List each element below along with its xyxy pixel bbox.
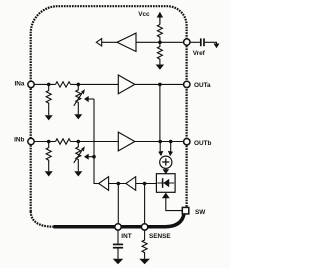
wire Vref node to buffer [136, 41, 183, 43]
capacitor C-INT [113, 244, 123, 247]
ground arrow (SENSE) [139, 259, 150, 264]
op-amp U1 Vref buffer (points left) [117, 33, 136, 51]
pin INT [115, 224, 121, 230]
wire INb input [34, 141, 55, 143]
svg-text:INT: INT [121, 233, 131, 240]
variable resistor (channel a attenuator) [76, 84, 81, 114]
wire amp A output to OUTa [135, 83, 184, 85]
wire SENSE column [144, 184, 146, 224]
svg-text:Vcc: Vcc [138, 11, 150, 18]
open arrowhead pointing left [96, 39, 101, 46]
resistor shunt INb [46, 142, 51, 172]
variable resistor arrow b [74, 146, 85, 163]
node control branch junction [92, 155, 96, 159]
buffer triangle 1 (points left) [99, 177, 109, 191]
svg-text:Vref: Vref [193, 50, 206, 57]
svg-text:SENSE: SENSE [149, 233, 171, 240]
wire INT column [117, 184, 119, 224]
ground arrow (channel a attenuator) [74, 114, 82, 119]
IC package outline (thick bottom border / ground bus) [54, 214, 185, 227]
diode D1 inside box [157, 178, 174, 188]
wire INa input [34, 83, 55, 85]
gain control arrow b [84, 154, 94, 160]
node OUTb left junction [158, 140, 162, 144]
resistor (Vcc to Vref node) [157, 25, 162, 43]
wire detector box to control chain [136, 183, 157, 185]
pin INb [28, 138, 34, 144]
wire capacitor to ground [117, 249, 119, 259]
node Vref divider junction [158, 41, 162, 45]
wire between buffers [109, 183, 126, 185]
wire amp B output to OUTb [135, 141, 184, 143]
wire INT to capacitor [117, 230, 119, 243]
variable resistor arrow a [74, 89, 85, 106]
arrow from SW into detector box [162, 193, 182, 211]
pin OUTb [184, 139, 190, 145]
wire control feedback (up to attenuators) [94, 99, 99, 184]
node OUTa junction [158, 83, 162, 87]
node SENSE branch junction [143, 182, 147, 186]
svg-text:OUTb: OUTb [194, 140, 211, 147]
svg-text:INb: INb [14, 137, 24, 144]
arrow summer to detector box [163, 168, 170, 174]
gain control arrow a [84, 96, 94, 102]
arrow into summer right [168, 151, 173, 156]
resistor shunt INa [46, 84, 51, 115]
resistor (Vref node to ground) [157, 42, 162, 64]
variable resistor (channel b attenuator) [76, 142, 81, 172]
wire resistor to amp B input [71, 141, 119, 143]
wire left summing input [159, 142, 161, 153]
capacitor C1 (Vref bypass) [201, 38, 204, 46]
ground arrow (INT) [113, 259, 124, 264]
node INb attenuator junction [77, 140, 81, 144]
detector box [156, 174, 175, 193]
IC package outline (dotted top/left/right border) [31, 6, 187, 211]
node INT branch junction [117, 182, 121, 186]
pin SW (square) [182, 207, 189, 214]
node INa attenuator junction [77, 83, 81, 87]
IC package outline (dotted bottom-left corner) [31, 212, 54, 227]
wire right summing input [170, 142, 172, 153]
wire resistor to amp A input [71, 83, 119, 85]
pin OUTa [184, 81, 190, 87]
wire Vref buffer output (to internal circuits) [98, 41, 117, 43]
svg-text:OUTa: OUTa [194, 82, 211, 89]
op-amp A (channel a) [118, 75, 135, 94]
node INb shunt junction [47, 140, 51, 144]
wire Vref pin to capacitor [190, 41, 200, 43]
ground arrow (INb shunt) [45, 171, 53, 176]
buffer triangle 2 (points left) [126, 177, 136, 191]
svg-text:SW: SW [195, 209, 206, 216]
summing node circle [160, 156, 172, 168]
op-amp B (channel b) [118, 132, 135, 151]
node INa shunt junction [47, 83, 51, 87]
arrow into summer left [158, 151, 163, 156]
resistor R-INb series [56, 139, 71, 144]
svg-text:INa: INa [14, 80, 24, 87]
node OUTb right junction [169, 140, 173, 144]
ground arrow (INa shunt) [45, 115, 53, 120]
wire OUTa to OUTb column [159, 84, 161, 141]
plus sign [162, 158, 169, 165]
wire capacitor to ground arrow [205, 42, 217, 44]
resistor R-SENSE [142, 230, 147, 258]
pin SENSE [141, 224, 147, 230]
ground arrow (channel b attenuator) [74, 171, 82, 176]
Vcc supply arrow [157, 12, 163, 25]
pin Vref [184, 39, 190, 45]
ground arrow (Vref capacitor) [214, 44, 220, 49]
ground arrow below Vref divider [156, 65, 164, 70]
pin INa [28, 81, 34, 87]
resistor R-INa series [56, 82, 71, 87]
